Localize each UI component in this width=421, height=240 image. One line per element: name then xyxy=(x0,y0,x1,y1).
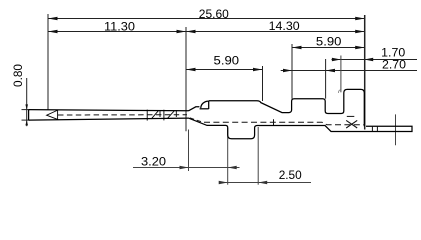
dim line 25.60 xyxy=(48,17,365,20)
box curl fold edge xyxy=(208,101,210,109)
svg-text:25.60: 25.60 xyxy=(199,7,229,21)
extension line right x365 xyxy=(364,15,366,130)
dim line 11.30 xyxy=(48,30,186,33)
pin dashed centerline xyxy=(58,114,187,116)
svg-text:11.30: 11.30 xyxy=(104,20,135,34)
dim line 5.90 right xyxy=(292,46,365,49)
crimp X mark stroke 1 xyxy=(346,120,357,128)
pin tip chevron tick xyxy=(57,110,59,120)
break mark half tick 1 xyxy=(159,110,161,117)
terminal pin top edge xyxy=(29,110,189,111)
break mark tick 1 xyxy=(146,110,148,121)
terminal pin bottom edge and lower plate with solder tab xyxy=(29,118,412,139)
short dash above crimp X xyxy=(347,115,355,117)
svg-text:14.30: 14.30 xyxy=(269,19,300,33)
dim line 5.90 middle xyxy=(186,68,263,71)
extension line x258.2 bottom xyxy=(257,127,259,185)
upper profile: box top, middle bump, right wing xyxy=(209,89,365,126)
dashed bend slant at transition xyxy=(190,118,203,122)
extension line x227.7 bottom xyxy=(227,128,229,185)
break mark diagonal 2 xyxy=(167,111,174,119)
svg-text:3.20: 3.20 xyxy=(141,154,166,168)
dim line 14.30 xyxy=(186,30,365,33)
wing bend phantom arc xyxy=(338,90,340,93)
extension line x325.6 xyxy=(325,59,327,99)
crimp X mark stroke 2 xyxy=(346,120,357,128)
transition top slant xyxy=(189,107,200,111)
dim line 2.50 xyxy=(219,181,311,184)
strip tick 2 xyxy=(376,126,378,131)
svg-text:2.70: 2.70 xyxy=(382,57,406,71)
extension line x340.9 xyxy=(340,56,342,93)
extension line x292 xyxy=(291,44,293,99)
svg-text:0.80: 0.80 xyxy=(11,64,25,87)
dim line 0.80 vertical xyxy=(22,78,31,126)
break mark tick 2 xyxy=(163,110,165,121)
carrier strip cut centerline x395 xyxy=(395,114,397,145)
box curl under line xyxy=(200,108,209,110)
extension line left x48 xyxy=(47,14,49,110)
pin tip chamfer chevron xyxy=(47,110,59,120)
dim line 3.20 xyxy=(133,166,240,169)
break mark half tick 2 xyxy=(175,110,177,117)
svg-text:5.90: 5.90 xyxy=(316,34,342,48)
dim line 2.70 xyxy=(281,69,417,72)
svg-text:5.90: 5.90 xyxy=(214,53,240,67)
box curl arc xyxy=(201,101,209,108)
dashed bend line lower plate xyxy=(204,122,364,125)
extension line x186 xyxy=(185,27,187,131)
bend line tick x273.5 xyxy=(273,119,275,125)
break mark diagonal 1 xyxy=(151,110,158,119)
extension line x188.5 bottom xyxy=(188,130,190,172)
terminal pin left end cap xyxy=(28,110,30,121)
extension line x262.5 xyxy=(262,66,264,101)
strip tick 1 xyxy=(371,126,373,131)
svg-text:2.50: 2.50 xyxy=(279,168,302,182)
dim line 1.70 xyxy=(332,58,418,61)
